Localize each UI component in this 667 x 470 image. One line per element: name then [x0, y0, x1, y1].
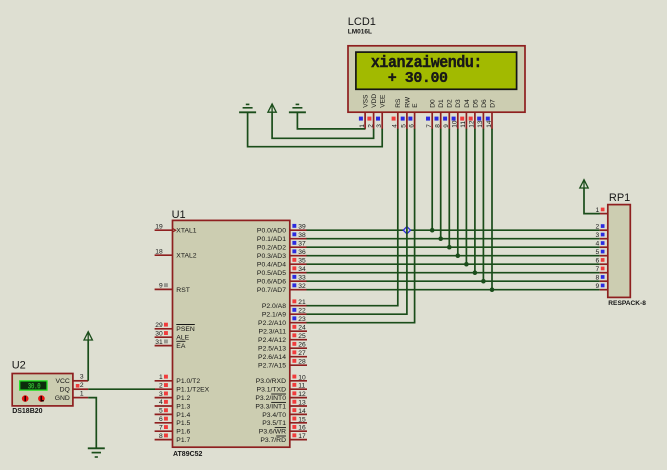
svg-text:D1: D1 [438, 99, 445, 108]
svg-text:14: 14 [486, 120, 493, 128]
U1 pin 18 (XTAL2) [155, 248, 197, 259]
svg-text:10: 10 [298, 374, 306, 381]
svg-text:XTAL1: XTAL1 [176, 228, 196, 235]
U1 pin 34 (P0.5/AD5) [257, 266, 307, 277]
svg-text:18: 18 [155, 248, 163, 255]
svg-text:11: 11 [460, 121, 467, 128]
temperature sensor U2 DS18B20 body [12, 360, 73, 415]
LCD1 pin 2 (VDD) [367, 112, 374, 129]
svg-text:29: 29 [155, 322, 163, 329]
svg-text:6: 6 [595, 258, 599, 265]
U1 pin 1 (P1.0/T2) [155, 374, 201, 385]
svg-text:1: 1 [359, 124, 366, 128]
U1 pin 35 (P0.4/AD4) [257, 258, 307, 269]
wire net P0.3 from U1 pin 36 to RP1 pin 5 [307, 255, 600, 257]
svg-text:13: 13 [298, 400, 306, 407]
LCD1 pin 11 (D4) [460, 112, 467, 129]
svg-text:38: 38 [298, 232, 306, 239]
wire RP1 pin1 to power [584, 188, 600, 214]
wire U2 DQ pin2 to U1 P1.1 [88, 388, 155, 390]
U2 pin 1 (GND) [73, 390, 88, 397]
svg-text:30: 30 [155, 330, 163, 337]
junction D0 / P0.0 [430, 228, 435, 233]
svg-text:4: 4 [595, 241, 599, 248]
svg-text:P2.4/A12: P2.4/A12 [258, 337, 286, 344]
svg-text:24: 24 [298, 325, 306, 332]
svg-text:VEE: VEE [380, 94, 387, 108]
LCD display LCD1 LM016L [348, 16, 525, 112]
svg-text:6: 6 [408, 124, 415, 128]
svg-text:31: 31 [155, 339, 163, 346]
U2 pin 3 (VCC) [73, 374, 88, 381]
wire net P0.6 from U1 pin 33 to RP1 pin 8 [307, 280, 600, 282]
svg-text:1: 1 [159, 374, 163, 381]
U1 pin 27 (P2.6/A14) [258, 350, 307, 361]
U1 pin 33 (P0.6/AD6) [257, 275, 307, 286]
svg-text:LM016L: LM016L [348, 29, 372, 36]
U1 pin 8 (P1.7) [155, 433, 191, 444]
svg-text:7: 7 [426, 124, 433, 128]
U1 pin 37 (P0.2/AD2) [257, 241, 307, 252]
svg-text:P0.7/AD7: P0.7/AD7 [257, 287, 286, 294]
U1 pin 11 (P3.1/TXD) [257, 383, 307, 394]
U1 pin 32 (P0.7/AD7) [257, 283, 307, 294]
RP1 pin 9 [595, 283, 607, 290]
svg-text:25: 25 [298, 333, 306, 340]
svg-text:P2.3/A11: P2.3/A11 [259, 329, 287, 336]
RP1 pin 2 [595, 224, 607, 231]
svg-text:P2.7/A15: P2.7/A15 [258, 363, 286, 370]
svg-text:16: 16 [298, 425, 306, 432]
svg-text:D4: D4 [464, 99, 471, 108]
LCD1 pin 10 (D3) [452, 112, 459, 129]
svg-text:U2: U2 [12, 360, 26, 372]
wire net P0.2 from U1 pin 37 to RP1 pin 4 [307, 246, 600, 248]
svg-text:39: 39 [298, 224, 306, 231]
svg-text:10: 10 [452, 120, 459, 128]
svg-text:D5: D5 [472, 99, 479, 108]
svg-text:2: 2 [595, 224, 599, 231]
U1 pin 36 (P0.3/AD3) [257, 249, 307, 260]
svg-text:D0: D0 [430, 99, 437, 108]
wire LCD D1 pin8 down to P0.1 row [440, 129, 442, 239]
U1 pin 17 (P3.7/RD) [260, 433, 307, 444]
U1 pin 19 (XTAL1) [155, 223, 197, 234]
svg-text:P2.2/A10: P2.2/A10 [258, 320, 286, 327]
wire LCD D4 pin11 down to P0.4 row [465, 129, 467, 265]
wire LCD D0 pin7 down to P0.0 row [431, 129, 433, 231]
U1 pin 29 (PSEN) [155, 322, 195, 333]
RP1 pin 1 [595, 207, 607, 214]
svg-text:P0.3/AD3: P0.3/AD3 [257, 253, 286, 260]
svg-text:17: 17 [298, 433, 306, 440]
svg-text:30.0: 30.0 [28, 383, 41, 392]
U1 pin 5 (P1.4) [155, 408, 191, 419]
ground (VSS rail) [289, 104, 306, 112]
svg-text:EA: EA [176, 343, 186, 350]
svg-text:LCD1: LCD1 [348, 16, 376, 28]
svg-text:P2.0/A8: P2.0/A8 [262, 303, 286, 310]
wire LCD D2 pin9 down to P0.2 row [448, 129, 450, 248]
svg-text:ALE: ALE [176, 335, 189, 342]
wire LCD VDD pin2 to power [272, 112, 374, 138]
svg-text:28: 28 [298, 359, 306, 366]
svg-text:P3.1/TXD: P3.1/TXD [257, 387, 287, 394]
wire LCD D6 pin13 down to P0.6 row [482, 129, 484, 282]
svg-text:P0.0/AD0: P0.0/AD0 [257, 228, 286, 235]
svg-text:VDD: VDD [371, 94, 378, 108]
svg-text:9: 9 [443, 124, 450, 128]
U1 pin 13 (P3.3/INT1) [255, 400, 307, 411]
svg-text:P3.4/T0: P3.4/T0 [262, 412, 286, 419]
wire net P0.0 from U1 pin 39 to RP1 pin 2 [307, 229, 600, 231]
junction D5 / P0.5 [473, 270, 478, 275]
LCD1 pin 4 (RS) [392, 112, 399, 129]
junction D1 / P0.1 [438, 236, 443, 241]
svg-text:7: 7 [595, 266, 599, 273]
LCD1 pin 9 (D2) [443, 112, 450, 129]
junction D4 / P0.4 [464, 262, 469, 267]
U1 pin 31 (EA) [155, 339, 186, 350]
svg-text:P0.4/AD4: P0.4/AD4 [257, 262, 286, 269]
svg-text:34: 34 [298, 266, 306, 273]
svg-text:21: 21 [298, 299, 306, 306]
svg-text:P3.2/INT0: P3.2/INT0 [255, 395, 286, 402]
svg-text:12: 12 [469, 120, 476, 128]
svg-text:26: 26 [298, 342, 306, 349]
svg-text:2: 2 [159, 382, 163, 389]
U1 pin 30 (ALE) [155, 330, 190, 341]
svg-text:2: 2 [80, 382, 84, 389]
svg-text:P2.5/A13: P2.5/A13 [258, 346, 286, 353]
svg-text:VCC: VCC [55, 378, 69, 385]
svg-text:P2.1/A9: P2.1/A9 [262, 312, 286, 319]
svg-text:RW: RW [404, 96, 411, 108]
svg-text:8: 8 [435, 124, 442, 128]
svg-text:3: 3 [80, 374, 84, 381]
wire LCD D7 pin14 down to P0.7 row [491, 129, 493, 290]
LCD1 pin 3 (VEE) [376, 112, 383, 129]
wire LCD E pin6 to U1 P2.2 [307, 129, 415, 323]
svg-text:36: 36 [298, 249, 306, 256]
power VCC arrow for RP1 [580, 180, 588, 188]
svg-text:P3.7/RD: P3.7/RD [260, 437, 286, 444]
svg-text:37: 37 [298, 241, 306, 248]
junction D6 / P0.6 [481, 279, 486, 284]
junction D7 / P0.7 [490, 287, 495, 292]
svg-text:U1: U1 [172, 209, 186, 221]
svg-text:AT89C52: AT89C52 [173, 451, 203, 458]
RP1 pin 4 [595, 241, 607, 248]
LCD1 pin 7 (D0) [426, 112, 433, 129]
svg-text:4: 4 [392, 124, 399, 128]
svg-text:P0.6/AD6: P0.6/AD6 [257, 279, 286, 286]
svg-text:P1.3: P1.3 [176, 403, 190, 410]
wire net P0.1 from U1 pin 38 to RP1 pin 3 [307, 238, 600, 240]
U1 pin 15 (P3.5/T1) [262, 416, 307, 427]
svg-text:DS18B20: DS18B20 [12, 408, 42, 415]
svg-text:3: 3 [159, 391, 163, 398]
wire LCD RS pin4 to U1 P2.0 [307, 129, 398, 306]
svg-text:4: 4 [159, 399, 163, 406]
svg-text:19: 19 [155, 223, 163, 230]
svg-text:DQ: DQ [60, 386, 70, 393]
wire net P0.4 from U1 pin 35 to RP1 pin 6 [307, 263, 600, 265]
svg-text:2: 2 [367, 124, 374, 128]
LCD1 pin 6 (E) [408, 112, 415, 129]
U1 pin 2 (P1.1/T2EX) [155, 382, 210, 393]
svg-text:P2.6/A14: P2.6/A14 [258, 354, 286, 361]
svg-text:+ 30.00: + 30.00 [388, 70, 448, 87]
U1 pin 12 (P3.2/INT0) [255, 391, 307, 402]
svg-text:3: 3 [595, 232, 599, 239]
U1 pin 39 (P0.0/AD0) [257, 224, 307, 235]
wire U2 VCC pin3 to power [87, 340, 89, 381]
svg-text:P1.7: P1.7 [176, 437, 190, 444]
wire LCD RW pin5 to U1 P2.1 [307, 129, 407, 315]
svg-text:RST: RST [176, 287, 190, 294]
U1 pin 9 (RST) [155, 283, 190, 294]
svg-text:5: 5 [401, 124, 408, 128]
svg-text:33: 33 [298, 275, 306, 282]
LCD1 pin 5 (RW) [401, 112, 408, 129]
svg-text:PSEN: PSEN [176, 326, 195, 333]
svg-text:9: 9 [595, 283, 599, 290]
RP1 pin 5 [595, 249, 607, 256]
svg-text:P3.0/RXD: P3.0/RXD [256, 378, 286, 385]
svg-text:XTAL2: XTAL2 [176, 253, 196, 260]
svg-text:GND: GND [55, 395, 70, 402]
svg-text:P1.1/T2EX: P1.1/T2EX [176, 387, 209, 394]
wire LCD VSS pin1 to ground [297, 112, 365, 129]
LCD1 pin 14 (D7) [486, 112, 493, 129]
ground below U2 [88, 448, 105, 457]
svg-text:35: 35 [298, 258, 306, 265]
U1 pin 3 (P1.2) [155, 391, 191, 402]
U1 pin 4 (P1.3) [155, 399, 191, 410]
U1 pin 6 (P1.5) [155, 416, 191, 427]
LCD1 pin 13 (D6) [477, 112, 484, 129]
U1 pin 25 (P2.4/A12) [258, 333, 307, 344]
node marker (diamond) on RW wire at P0.0 row [403, 227, 410, 234]
svg-text:14: 14 [298, 408, 306, 415]
svg-text:P3.5/T1: P3.5/T1 [262, 420, 286, 427]
RP1 pin 7 [595, 266, 607, 273]
wire LCD D3 pin10 down to P0.3 row [457, 129, 459, 256]
U1 pin 21 (P2.0/A8) [262, 299, 307, 310]
svg-text:D3: D3 [455, 99, 462, 108]
LCD1 pin 8 (D1) [435, 112, 442, 129]
svg-text:12: 12 [298, 391, 306, 398]
svg-text:P3.3/INT1: P3.3/INT1 [255, 403, 286, 410]
microcontroller U1 AT89C52 body [172, 209, 290, 458]
svg-text:11: 11 [298, 383, 305, 390]
U1 pin 26 (P2.5/A13) [258, 342, 307, 353]
U1 pin 28 (P2.7/A15) [258, 359, 307, 370]
svg-text:22: 22 [298, 308, 306, 315]
RP1 pin 6 [595, 258, 607, 265]
svg-text:P1.2: P1.2 [176, 395, 190, 402]
svg-text:5: 5 [159, 408, 163, 415]
U1 pin 10 (P3.0/RXD) [256, 374, 307, 385]
U1 pin 22 (P2.1/A9) [262, 308, 307, 319]
ground (VEE rail) [239, 104, 256, 112]
svg-text:27: 27 [298, 350, 306, 357]
svg-text:P1.6: P1.6 [176, 429, 190, 436]
svg-text:P0.1/AD1: P0.1/AD1 [257, 236, 286, 243]
svg-text:D7: D7 [489, 99, 496, 108]
wire net P0.7 from U1 pin 32 to RP1 pin 9 [307, 289, 600, 291]
svg-text:P1.4: P1.4 [176, 412, 190, 419]
svg-text:9: 9 [159, 283, 163, 290]
svg-text:RP1: RP1 [609, 192, 630, 204]
svg-text:D2: D2 [447, 99, 454, 108]
svg-text:13: 13 [477, 120, 484, 128]
svg-text:1: 1 [80, 390, 84, 397]
svg-text:RS: RS [395, 98, 402, 108]
svg-text:6: 6 [159, 416, 163, 423]
wire LCD VEE pin3 to ground [248, 112, 383, 147]
RP1 pin 3 [595, 232, 607, 239]
svg-text:8: 8 [595, 275, 599, 282]
power VCC arrow (VDD rail) [268, 104, 276, 112]
svg-text:RESPACK-8: RESPACK-8 [608, 300, 646, 307]
power VCC arrow for U2 [84, 332, 92, 340]
wire LCD D5 pin12 down to P0.5 row [474, 129, 476, 273]
U2 pin 2 (DQ) [73, 382, 88, 389]
resistor pack RP1 RESPACK-8 body [608, 192, 646, 307]
svg-text:P1.5: P1.5 [176, 420, 190, 427]
svg-text:23: 23 [298, 316, 306, 323]
svg-text:P3.6/WR: P3.6/WR [259, 429, 286, 436]
U1 pin 38 (P0.1/AD1) [257, 232, 307, 243]
svg-text:P1.0/T2: P1.0/T2 [176, 378, 200, 385]
U1 pin 23 (P2.2/A10) [258, 316, 307, 327]
U1 pin 14 (P3.4/T0) [262, 408, 307, 419]
svg-text:3: 3 [376, 124, 383, 128]
svg-text:8: 8 [159, 433, 163, 440]
svg-text:P0.5/AD5: P0.5/AD5 [257, 270, 286, 277]
U1 pin 7 (P1.6) [155, 424, 191, 435]
junction D3 / P0.3 [456, 253, 461, 258]
svg-text:D6: D6 [481, 99, 488, 108]
svg-text:VSS: VSS [363, 94, 370, 108]
svg-text:15: 15 [298, 416, 306, 423]
wire U2 GND pin1 to ground [88, 398, 96, 449]
U1 pin 24 (P2.3/A11) [259, 325, 307, 336]
RP1 pin 8 [595, 275, 607, 282]
svg-text:32: 32 [298, 283, 306, 290]
U1 pin 16 (P3.6/WR) [259, 425, 307, 436]
junction D2 / P0.2 [447, 245, 452, 250]
svg-text:P0.2/AD2: P0.2/AD2 [257, 245, 286, 252]
svg-text:7: 7 [159, 424, 163, 431]
svg-text:E: E [412, 103, 419, 108]
LCD1 pin 1 (VSS) [359, 112, 366, 129]
svg-text:5: 5 [595, 249, 599, 256]
LCD1 pin 12 (D5) [469, 112, 476, 129]
wire net P0.5 from U1 pin 34 to RP1 pin 7 [307, 272, 600, 274]
